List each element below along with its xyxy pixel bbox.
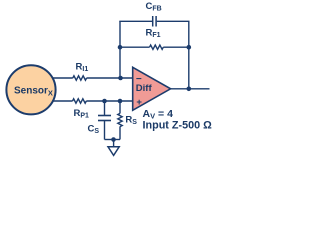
wire RP1 to opamp plus input: [86, 100, 132, 102]
node output junction: [187, 87, 192, 92]
wire bottom from sensor to RP1: [52, 100, 73, 102]
resistor RP1: [73, 99, 90, 120]
node minus input junction: [118, 76, 123, 81]
svg-text:CS: CS: [88, 123, 100, 135]
svg-text:+: +: [136, 97, 142, 108]
wire bottom ground bus: [105, 139, 121, 141]
node RS junction: [118, 99, 123, 104]
wire RI1 to opamp minus input: [87, 77, 133, 79]
svg-text:RS: RS: [125, 115, 137, 127]
node ground junction: [111, 137, 116, 142]
wire top from sensor to RI1: [52, 77, 73, 79]
capacitor CFB: [119, 1, 189, 27]
resistor RF1: [120, 28, 189, 50]
resistor RI1: [73, 62, 89, 81]
node RF1 right: [187, 45, 192, 50]
op-amp U1 Diff: [133, 67, 171, 110]
svg-text:RP1: RP1: [74, 108, 90, 120]
svg-text:SensorX: SensorX: [14, 86, 53, 98]
wire feedback right vertical: [188, 21, 190, 89]
sensor SensorX: [6, 65, 55, 114]
svg-text:Input Z-500 Ω: Input Z-500 Ω: [143, 120, 213, 132]
wire output: [171, 88, 210, 90]
node RF1 left: [118, 45, 123, 50]
svg-text:RI1: RI1: [76, 62, 89, 74]
svg-text:CFB: CFB: [146, 1, 162, 13]
capacitor CS: [88, 101, 112, 140]
wire feedback left vertical: [119, 21, 121, 78]
resistor RS: [118, 101, 137, 140]
svg-text:Diff: Diff: [136, 83, 153, 94]
svg-text:RF1: RF1: [146, 28, 161, 40]
node CS junction: [102, 99, 107, 104]
ground: [108, 140, 119, 156]
